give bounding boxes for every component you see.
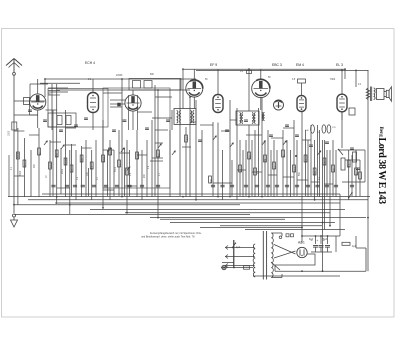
svg-text:3000: 3000 xyxy=(51,162,53,168)
svg-text:7000: 7000 xyxy=(330,79,336,81)
svg-text:5000: 5000 xyxy=(104,156,106,162)
svg-text:5000: 5000 xyxy=(20,170,22,176)
svg-text:4µF: 4µF xyxy=(236,246,241,249)
svg-text:8µF: 8µF xyxy=(309,238,314,241)
svg-text:2x500: 2x500 xyxy=(116,75,123,77)
svg-text:5000: 5000 xyxy=(115,166,117,172)
svg-text:EF 9: EF 9 xyxy=(210,63,217,67)
svg-text:8µF: 8µF xyxy=(323,238,328,241)
svg-text:Berg: Berg xyxy=(378,127,383,138)
svg-text:10000: 10000 xyxy=(66,158,68,165)
svg-text:50000: 50000 xyxy=(138,152,140,159)
svg-text:+: + xyxy=(317,238,319,242)
svg-text:EM 4: EM 4 xyxy=(296,63,304,67)
svg-text:AZ 1: AZ 1 xyxy=(298,241,305,245)
svg-text:ECH 4: ECH 4 xyxy=(85,61,95,65)
svg-text:5000: 5000 xyxy=(295,166,297,172)
svg-text:2000: 2000 xyxy=(62,168,64,174)
svg-text:5000: 5000 xyxy=(18,152,20,158)
svg-text:4µF: 4µF xyxy=(352,245,357,248)
svg-text:1000: 1000 xyxy=(9,130,11,136)
svg-text:Lord 38 W E 143: Lord 38 W E 143 xyxy=(376,138,387,205)
svg-text:und Bezirksempf. ohne; siehe a: und Bezirksempf. ohne; siehe auch Text A… xyxy=(141,235,195,238)
svg-text:1M: 1M xyxy=(265,159,267,162)
svg-text:EL 3: EL 3 xyxy=(336,63,343,67)
svg-text:EBC 3: EBC 3 xyxy=(272,63,282,67)
